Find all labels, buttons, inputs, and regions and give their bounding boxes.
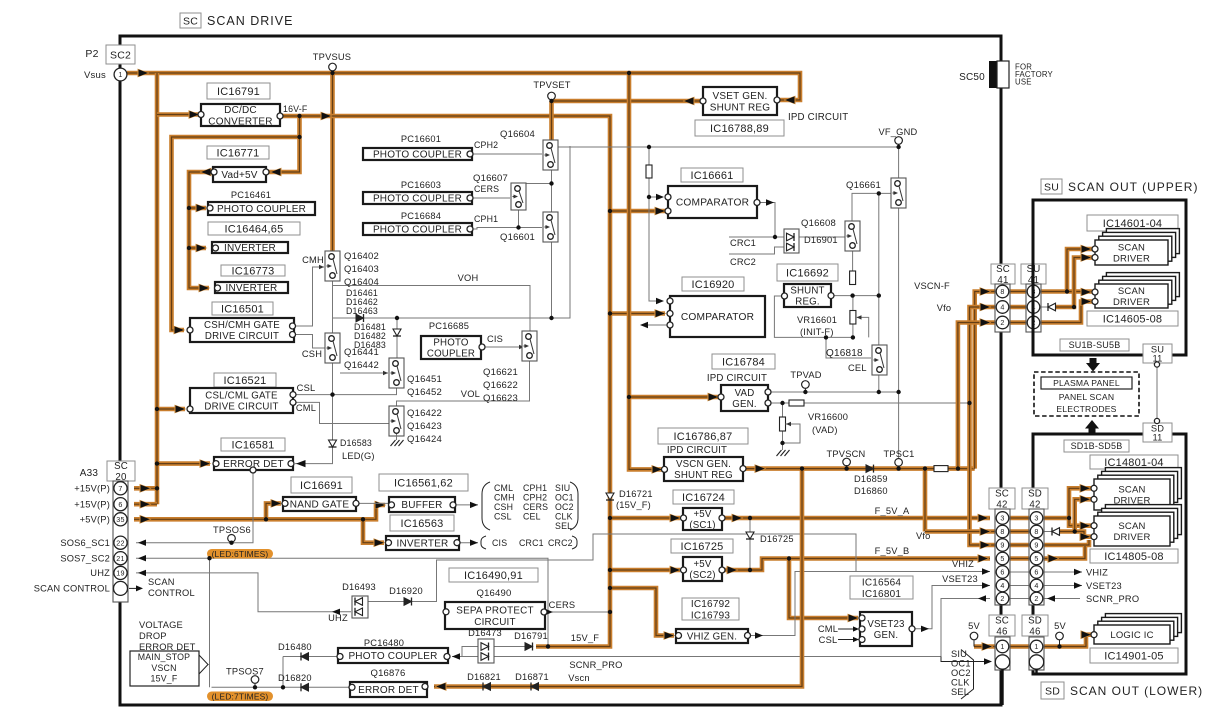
pin SC41-2 [996, 316, 1009, 329]
label PLASMA PANEL [1041, 377, 1132, 389]
wire vr16600 gnd [777, 431, 790, 456]
svg-text:Q16607: Q16607 [473, 173, 508, 184]
wire Q16607 top link [519, 182, 552, 185]
svg-text:IPD CIRCUIT: IPD CIRCUIT [667, 445, 727, 456]
wire sd42-3 east [1043, 516, 1069, 521]
junction d16461/d16481 [395, 316, 399, 320]
IC label IC16691 [291, 477, 352, 493]
frame SU block [1033, 200, 1186, 355]
connector SC2 [106, 45, 135, 64]
IC label IC16773 [221, 265, 285, 277]
wire comparator thin feed [649, 147, 664, 200]
label inv signals [492, 538, 573, 548]
brace inv close [572, 536, 577, 549]
block photo coupler PC16480 [337, 648, 450, 663]
junction vfgnd/ic16661 [647, 145, 651, 149]
wire INV16563 feed [363, 519, 386, 547]
wire riser x925 [923, 469, 928, 532]
svg-text:D16483: D16483 [354, 340, 386, 350]
svg-text:+5V: +5V [693, 559, 711, 570]
svg-text:VSCN: VSCN [151, 663, 176, 673]
label Vscn [568, 673, 589, 683]
junction tpsc1 [896, 466, 900, 470]
IC label IC16581 [221, 438, 285, 451]
label CPH1 [474, 214, 498, 224]
transistor Q16422-24 CML [389, 406, 404, 436]
block inverter IC16464-65 [212, 242, 288, 254]
label Q16661 [846, 180, 881, 191]
wire buffer out [455, 502, 478, 508]
svg-text:16V-F: 16V-F [283, 104, 308, 114]
transistor Q16601 [543, 212, 558, 242]
junction 16V-F ic16920 [608, 311, 612, 315]
junction sos7 riser [207, 556, 211, 560]
wire CML [294, 402, 391, 423]
wire Vscn line [434, 469, 802, 691]
arrow panel lower [1085, 420, 1099, 433]
connector SC42 label [989, 488, 1015, 511]
connector SC46 body [995, 637, 1010, 670]
wire D16461 line [333, 146, 571, 318]
wire sd42-8 east [1043, 531, 1052, 533]
transistor Q16607 [511, 183, 526, 210]
pin SC41-4 [996, 301, 1009, 314]
label D16871 [515, 672, 549, 682]
label SC50 [959, 72, 985, 83]
diode D16721 [606, 493, 614, 500]
svg-text:SEL: SEL [555, 521, 572, 531]
highlight LED6TIMES [207, 549, 273, 559]
svg-text:PANEL SCAN: PANEL SCAN [1059, 392, 1115, 402]
svg-text:IC14605-08: IC14605-08 [1103, 313, 1163, 325]
svg-text:21: 21 [116, 554, 124, 563]
pin 21 SOS7 [114, 552, 127, 565]
label CSL [297, 383, 316, 393]
block photo coupler PC16461 [207, 202, 315, 215]
svg-text:SD: SD [1028, 615, 1042, 626]
svg-text:SIU: SIU [555, 483, 570, 493]
variable resistor VR16601 [850, 311, 869, 338]
junction vfo [967, 401, 971, 405]
IC label IC14601-04 [1087, 215, 1178, 231]
svg-text:D16901: D16901 [804, 235, 838, 245]
svg-text:VSCN-F: VSCN-F [914, 281, 950, 291]
svg-text:4: 4 [1000, 303, 1004, 312]
block Vad+5V regulator U-IC16771 [211, 167, 269, 182]
pin SD42-8 [1030, 525, 1043, 538]
svg-text:Q16608: Q16608 [801, 218, 836, 229]
IC label IC16792,93 [682, 598, 739, 621]
label CML vset [818, 624, 859, 634]
svg-text:D16725: D16725 [760, 534, 794, 544]
svg-text:CIS: CIS [487, 334, 503, 344]
svg-text:Vfo: Vfo [937, 303, 952, 313]
svg-text:PC16480: PC16480 [364, 638, 404, 648]
wire d16473 left jog [462, 647, 478, 657]
transistor Q16402-04 [325, 251, 340, 281]
svg-text:UHZ: UHZ [328, 613, 348, 623]
svg-text:SC: SC [114, 461, 128, 472]
svg-text:9: 9 [1034, 541, 1038, 550]
pin 1 Vsus [114, 68, 127, 81]
connector SC41 label [991, 264, 1015, 286]
wire comparator1 feed [610, 207, 667, 216]
label VR16600 [808, 412, 848, 435]
junction sc2/d16725 [748, 568, 752, 572]
junction 16V-F vhizgen [608, 586, 612, 590]
svg-text:OC2: OC2 [951, 668, 971, 678]
pin SD42-4 [1030, 579, 1043, 592]
block logic IC stack IC14901-05 [1091, 614, 1181, 644]
wire +15V left bus [155, 73, 160, 504]
wire shunt reg left loop [774, 296, 853, 337]
wire Q16608 emitter [852, 248, 854, 272]
IC label IC14801-04 [1090, 455, 1178, 469]
connector SC42 body [995, 509, 1010, 605]
wire Vfo line [804, 402, 970, 404]
junction vr16601 bottom [851, 335, 855, 339]
svg-text:11: 11 [1152, 433, 1162, 443]
pin SD42-3 [1030, 512, 1043, 525]
label Vfo upper [937, 303, 952, 313]
label VHIZ right [1086, 568, 1108, 578]
label D16493 [342, 582, 376, 592]
wire vr16600 top [782, 403, 784, 417]
diode D-sd42 [1052, 528, 1060, 536]
diode D16920 [404, 598, 412, 606]
wire LED drop [295, 395, 333, 468]
wire comparator2 thin feed [649, 197, 664, 304]
wire vr16601 stub [852, 296, 854, 311]
svg-text:SCNR_PRO: SCNR_PRO [569, 660, 622, 670]
transistor Q16604 [543, 140, 558, 170]
label PC16603 [401, 180, 441, 190]
wire VSCN line [743, 464, 975, 473]
junction vscn 925 [923, 466, 927, 470]
wire sc41-2 feed [958, 318, 996, 469]
connector SU41 body [1026, 284, 1041, 332]
junction CPH1/Q16607 [516, 225, 520, 229]
wire DCDC input branch [157, 110, 201, 119]
svg-text:Vsus: Vsus [84, 70, 106, 81]
label SIU OC1 OC2 CLK SEL [951, 649, 971, 697]
svg-text:GEN.: GEN. [874, 630, 898, 641]
svg-text:D16859: D16859 [854, 474, 888, 484]
label VR16601 [797, 315, 837, 337]
label VHIZ left [952, 559, 974, 569]
junction +5vp inv [361, 517, 365, 521]
svg-text:CPH2: CPH2 [523, 493, 547, 503]
connector SD46 label [1022, 615, 1048, 638]
block inverter IC16563 [386, 536, 461, 550]
svg-text:PHOTO COUPLER: PHOTO COUPLER [373, 194, 462, 205]
wire Q16601 emitter [551, 240, 553, 318]
svg-text:9: 9 [1000, 541, 1004, 550]
block DC/DC converter U-IC16791 [198, 104, 283, 127]
wire CEL riser upper [878, 193, 880, 295]
svg-text:SCAN: SCAN [148, 577, 175, 587]
svg-text:PC16461: PC16461 [231, 190, 271, 200]
block VSCN GEN shunt reg IC16786-87 [662, 457, 747, 481]
label CIS [487, 334, 503, 344]
diode D16791 [525, 643, 533, 651]
wire F_5V_B [722, 554, 990, 574]
label Q16607 [473, 173, 508, 184]
svg-text:VF_GND: VF_GND [879, 127, 918, 137]
wire sc46-sd46 link [1009, 644, 1030, 649]
pin SD42-6 [1030, 566, 1043, 579]
wire sd42-5 east [1043, 546, 1085, 563]
IC label IC16725 [671, 539, 733, 553]
wire Q16607 emitter [518, 208, 520, 228]
title SC SCAN DRIVE [180, 13, 293, 28]
diode D16583 LED [329, 440, 337, 447]
block plasma panel [1034, 372, 1139, 416]
svg-text:TPVSET: TPVSET [533, 80, 570, 90]
wire su4 riser [1056, 253, 1093, 307]
svg-text:5: 5 [1034, 554, 1038, 563]
IC label IC16920 [682, 277, 744, 291]
svg-text:A33: A33 [80, 468, 99, 479]
IC label IC16692 [777, 264, 838, 281]
svg-text:VSET23: VSET23 [942, 574, 978, 584]
svg-text:D16791: D16791 [514, 631, 548, 641]
block photo coupler PC16684 [363, 223, 473, 236]
svg-text:SIU: SIU [951, 649, 967, 659]
label 15V_F bot [571, 633, 600, 643]
wire VOL [397, 359, 530, 409]
IC label IC16563 [390, 515, 454, 531]
svg-text:COMPARATOR: COMPARATOR [676, 198, 749, 209]
wire nand-buffer [356, 502, 388, 504]
label PC16480 [364, 638, 404, 648]
svg-text:(SC1): (SC1) [689, 520, 715, 531]
label Q16621 [483, 367, 518, 404]
junction Vsus/x629 [627, 71, 631, 75]
label D16721 [616, 489, 653, 510]
label UHZ mid [328, 613, 348, 623]
label Q16422 [407, 408, 442, 445]
label signal grid [494, 483, 574, 531]
title SU SCAN OUT UPPER [1041, 179, 1198, 194]
IC label IC16564/16801 [850, 576, 913, 600]
transistor Q16818 CEL [872, 345, 887, 375]
svg-text:TPSC1: TPSC1 [884, 449, 915, 459]
label PC16684 [401, 211, 441, 221]
pin SD46-1 [1030, 640, 1043, 653]
pin SU41-4 [1027, 301, 1040, 314]
junction sd8 [1073, 529, 1077, 533]
svg-text:SCAN: SCAN [1118, 286, 1145, 297]
svg-text:Q16601: Q16601 [500, 232, 535, 243]
diode D16820 [301, 683, 309, 691]
arrow 16V-F east [321, 112, 333, 121]
IC label IC16791 [207, 83, 270, 99]
diode D16871 [531, 683, 539, 691]
svg-text:IC16773: IC16773 [232, 265, 275, 277]
svg-text:CRC1: CRC1 [730, 238, 756, 248]
pin 22 SOS6 [114, 536, 127, 549]
svg-text:IC16786,87: IC16786,87 [674, 431, 733, 443]
wire d16493-d16920 [368, 601, 404, 603]
junction shunt right [850, 293, 854, 297]
svg-text:Q16403: Q16403 [344, 264, 379, 275]
svg-text:IC16801: IC16801 [862, 589, 901, 600]
svg-text:19: 19 [116, 569, 124, 578]
svg-text:LOGIC IC: LOGIC IC [1110, 630, 1153, 641]
wire CRC1 [729, 236, 784, 238]
label FOR FACTORY USE [1015, 63, 1054, 87]
wire inverter1 feed [189, 244, 208, 253]
pin SC42-5 [996, 552, 1009, 565]
block scan driver stack IC14801-04 [1091, 468, 1181, 510]
pin SU41-2 [1027, 316, 1040, 329]
transistor Q16661 [891, 178, 906, 208]
transistor Q16451-52 [389, 358, 404, 388]
svg-text:IC16661: IC16661 [691, 170, 734, 182]
wire Q16608 base [799, 235, 851, 239]
svg-text:Q16876: Q16876 [370, 668, 405, 679]
wire shunt reg right [831, 295, 879, 297]
wire CEL emitter [878, 370, 880, 392]
label SOS6_SC1 [60, 538, 110, 548]
svg-text:CPH1: CPH1 [523, 483, 547, 493]
label SCNR_PRO mid [569, 660, 622, 670]
block error det IC16581 [213, 457, 294, 473]
svg-text:15V_F: 15V_F [571, 633, 600, 643]
svg-text:SC: SC [995, 488, 1009, 499]
svg-text:LED(G): LED(G) [342, 451, 375, 461]
IC label IC16788,89 [695, 120, 784, 136]
IC label IC16490,91 [449, 568, 538, 582]
svg-text:Q16452: Q16452 [407, 387, 442, 398]
test point TPVSUS [313, 52, 351, 73]
wire VHIZ GEN feed [610, 588, 676, 640]
svg-text:CERS: CERS [474, 184, 499, 194]
junction CSLCML branch [155, 407, 159, 411]
wire SCNR_PRO [452, 595, 990, 659]
pin SC42-6 [996, 566, 1009, 579]
wire CMH [294, 265, 324, 326]
wire CPH1 [473, 225, 549, 229]
svg-text:IC16490,91: IC16490,91 [464, 570, 523, 582]
block comparator IC16920 [667, 296, 765, 337]
wire 16V-F sub drop [269, 116, 300, 176]
label VOH [458, 273, 479, 283]
label Q16402 [344, 251, 379, 288]
main board frame SC [120, 36, 1001, 705]
wire Q16441 to Q16451 base [340, 371, 388, 375]
block VAD GEN IC16784 [718, 385, 771, 411]
wire NAND feed [266, 499, 283, 519]
junction d16820 corner [281, 685, 285, 689]
junction su8 [1065, 289, 1069, 293]
block VSET23 GEN IC16564 [859, 612, 915, 646]
svg-text:IC16561,62: IC16561,62 [394, 477, 453, 489]
svg-text:F_5V_A: F_5V_A [875, 506, 910, 516]
svg-text:SOS7_SC2: SOS7_SC2 [60, 554, 110, 564]
svg-text:VSET23: VSET23 [1086, 581, 1122, 591]
junction loop y137 [297, 135, 301, 139]
svg-text:(INIT-F): (INIT-F) [800, 327, 834, 337]
wire bottom error line [212, 686, 353, 688]
wire CSH [294, 335, 325, 349]
connector SD46 tail [1035, 669, 1037, 675]
IC label IC14901-05 [1090, 648, 1178, 663]
diode D-su41 [1048, 303, 1056, 311]
wire su41-2 east [1040, 297, 1093, 322]
test point TPVAD [790, 370, 821, 392]
junction tpsos7 [253, 685, 257, 689]
svg-text:USE: USE [1015, 78, 1032, 87]
wire sc42-8 feed [925, 527, 996, 536]
svg-text:CML: CML [818, 624, 838, 634]
svg-text:COMPARATOR: COMPARATOR [681, 312, 754, 323]
test point TPSOS7 [226, 667, 264, 687]
svg-text:D16721: D16721 [619, 489, 653, 499]
wire comparator2 feed [610, 309, 667, 318]
junction f5vb vset23 [787, 556, 791, 560]
svg-text:CML: CML [296, 403, 316, 413]
wire d16920 riser [412, 534, 856, 602]
svg-text:COUPLER: COUPLER [427, 349, 475, 360]
wire F_5V_A [750, 514, 990, 523]
svg-text:Q16442: Q16442 [344, 360, 379, 371]
wire Q16661 emitter [898, 203, 900, 469]
svg-text:SCAN: SCAN [1118, 242, 1145, 253]
pin 6 +15V [114, 498, 127, 511]
ground Q16424 [391, 434, 404, 446]
IC label IC16786,87 [658, 428, 748, 444]
svg-text:Q16604: Q16604 [500, 129, 535, 140]
svg-text:1: 1 [118, 70, 122, 79]
svg-text:(VAD): (VAD) [812, 425, 838, 435]
svg-text:OC2: OC2 [555, 502, 574, 512]
label D16821 [467, 672, 501, 682]
svg-text:SCAN: SCAN [1118, 521, 1145, 532]
label D16461-63 [346, 288, 378, 316]
svg-text:CSH: CSH [302, 349, 322, 359]
junction vr16600 bot [780, 441, 784, 445]
pin scan control [114, 581, 128, 595]
IC label IC16464,65 [208, 222, 300, 235]
svg-text:Q16621: Q16621 [483, 367, 518, 378]
block buffer IC16561-62 [389, 497, 457, 512]
label D16480 [278, 642, 312, 652]
svg-text:IC16501: IC16501 [221, 303, 264, 315]
junction Vsus/TPVSUS [330, 71, 334, 75]
svg-text:CMH: CMH [302, 255, 324, 265]
connector SD11 [1143, 418, 1172, 442]
wire IC16920 out3 [640, 322, 670, 328]
svg-text:IC16464,65: IC16464,65 [225, 223, 284, 235]
pin SC42-8 [996, 525, 1009, 538]
svg-text:PC16601: PC16601 [401, 134, 441, 144]
wire 5V feed [974, 642, 996, 651]
block inverter IC16773 [215, 282, 289, 294]
svg-text:IC16784: IC16784 [722, 356, 765, 368]
svg-text:PC16685: PC16685 [429, 321, 469, 331]
label Q16441 [344, 347, 379, 371]
connector SC46 label [989, 615, 1015, 638]
label D16473 [468, 628, 502, 638]
svg-text:SC2: SC2 [110, 50, 131, 62]
svg-text:SC: SC [995, 615, 1009, 626]
svg-text:Q16622: Q16622 [483, 380, 518, 391]
label IPD CIRCUIT top [788, 112, 848, 123]
svg-text:Q16404: Q16404 [344, 277, 379, 288]
svg-text:Vscn: Vscn [568, 673, 589, 683]
